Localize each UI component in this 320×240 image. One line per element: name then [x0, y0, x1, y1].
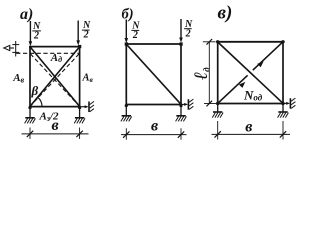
diagonal TL-BR (a): [30, 47, 80, 107]
frame bottom chord (a): [29, 106, 81, 108]
svg-text:в: в: [151, 117, 158, 134]
support left (v): [212, 104, 223, 118]
force arrow N/2 right (b): [179, 19, 183, 43]
dashed displaced diagonal TL-BR (a): [30, 54, 79, 106]
dimension line (v): [212, 121, 291, 140]
support left (b): [121, 104, 132, 121]
svg-text:2: 2: [185, 29, 191, 40]
svg-text:а): а): [20, 6, 33, 23]
force arrow N/2 right (a): [76, 21, 80, 46]
svg-text:Ав: Ав: [82, 73, 94, 85]
frame top chord (b): [125, 43, 181, 45]
diagonal force arrowhead upper (v): [257, 61, 263, 67]
force arrow N/2 left (b): [125, 20, 129, 44]
frame top chord (v): [217, 41, 284, 43]
frame left post (a): [29, 46, 31, 107]
horizontal wall support (v): [284, 98, 296, 109]
support right (b): [176, 104, 187, 121]
node square top-right (a): [78, 45, 81, 48]
frame bottom chord (v): [217, 103, 284, 105]
svg-text:β: β: [31, 83, 39, 98]
node dots corners (v): [216, 40, 219, 43]
angle arc beta (a): [38, 97, 42, 106]
diagonal TL-BR (v): [218, 42, 283, 103]
diagonal TR-BL (a): [30, 47, 80, 107]
frame left post (b): [125, 43, 127, 105]
support right (a): [74, 106, 85, 123]
frame right post (b): [180, 43, 182, 105]
frame top chord (a): [29, 46, 80, 48]
label N/2 left (b): [131, 21, 140, 41]
dashed displaced diagonal TR-BL (a): [30, 54, 79, 106]
displacement dimension bracket (a): [12, 41, 19, 57]
dimension line (b): [121, 128, 187, 140]
svg-text:в: в: [245, 119, 252, 136]
dashed displaced top chord (a): [16, 52, 79, 54]
force arrow N/2 left (a): [29, 21, 33, 46]
diagonal force line upper segment (v): [253, 43, 282, 70]
svg-text:2: 2: [33, 30, 39, 41]
svg-text:в: в: [52, 117, 59, 134]
support left (a): [25, 106, 36, 123]
horizontal wall support (b): [182, 99, 194, 110]
horizontal wall support (a): [81, 101, 95, 112]
dimension line (a): [22, 128, 89, 140]
label N/2 left (a): [32, 21, 41, 42]
frame bottom chord (b): [125, 104, 181, 106]
node square top-left (b): [125, 42, 128, 45]
diagonal force arrowhead lower (v): [239, 82, 245, 88]
displacement arrow (a): [4, 45, 14, 50]
node square top-right (b): [179, 42, 182, 45]
svg-text:2: 2: [132, 30, 138, 41]
svg-text:в): в): [218, 3, 233, 24]
svg-text:2: 2: [83, 30, 89, 41]
frame right post (v): [282, 41, 284, 104]
vertical dimension line ld (v): [203, 39, 216, 106]
diagonal force line lower segment (v): [219, 75, 248, 102]
frame left post (v): [217, 41, 219, 104]
diagonal TL-BR (b): [126, 44, 181, 104]
label N/2 right (b): [184, 19, 193, 40]
label N/2 right (a): [82, 20, 91, 41]
frame right post (a): [79, 46, 81, 107]
support right (v): [278, 104, 289, 118]
